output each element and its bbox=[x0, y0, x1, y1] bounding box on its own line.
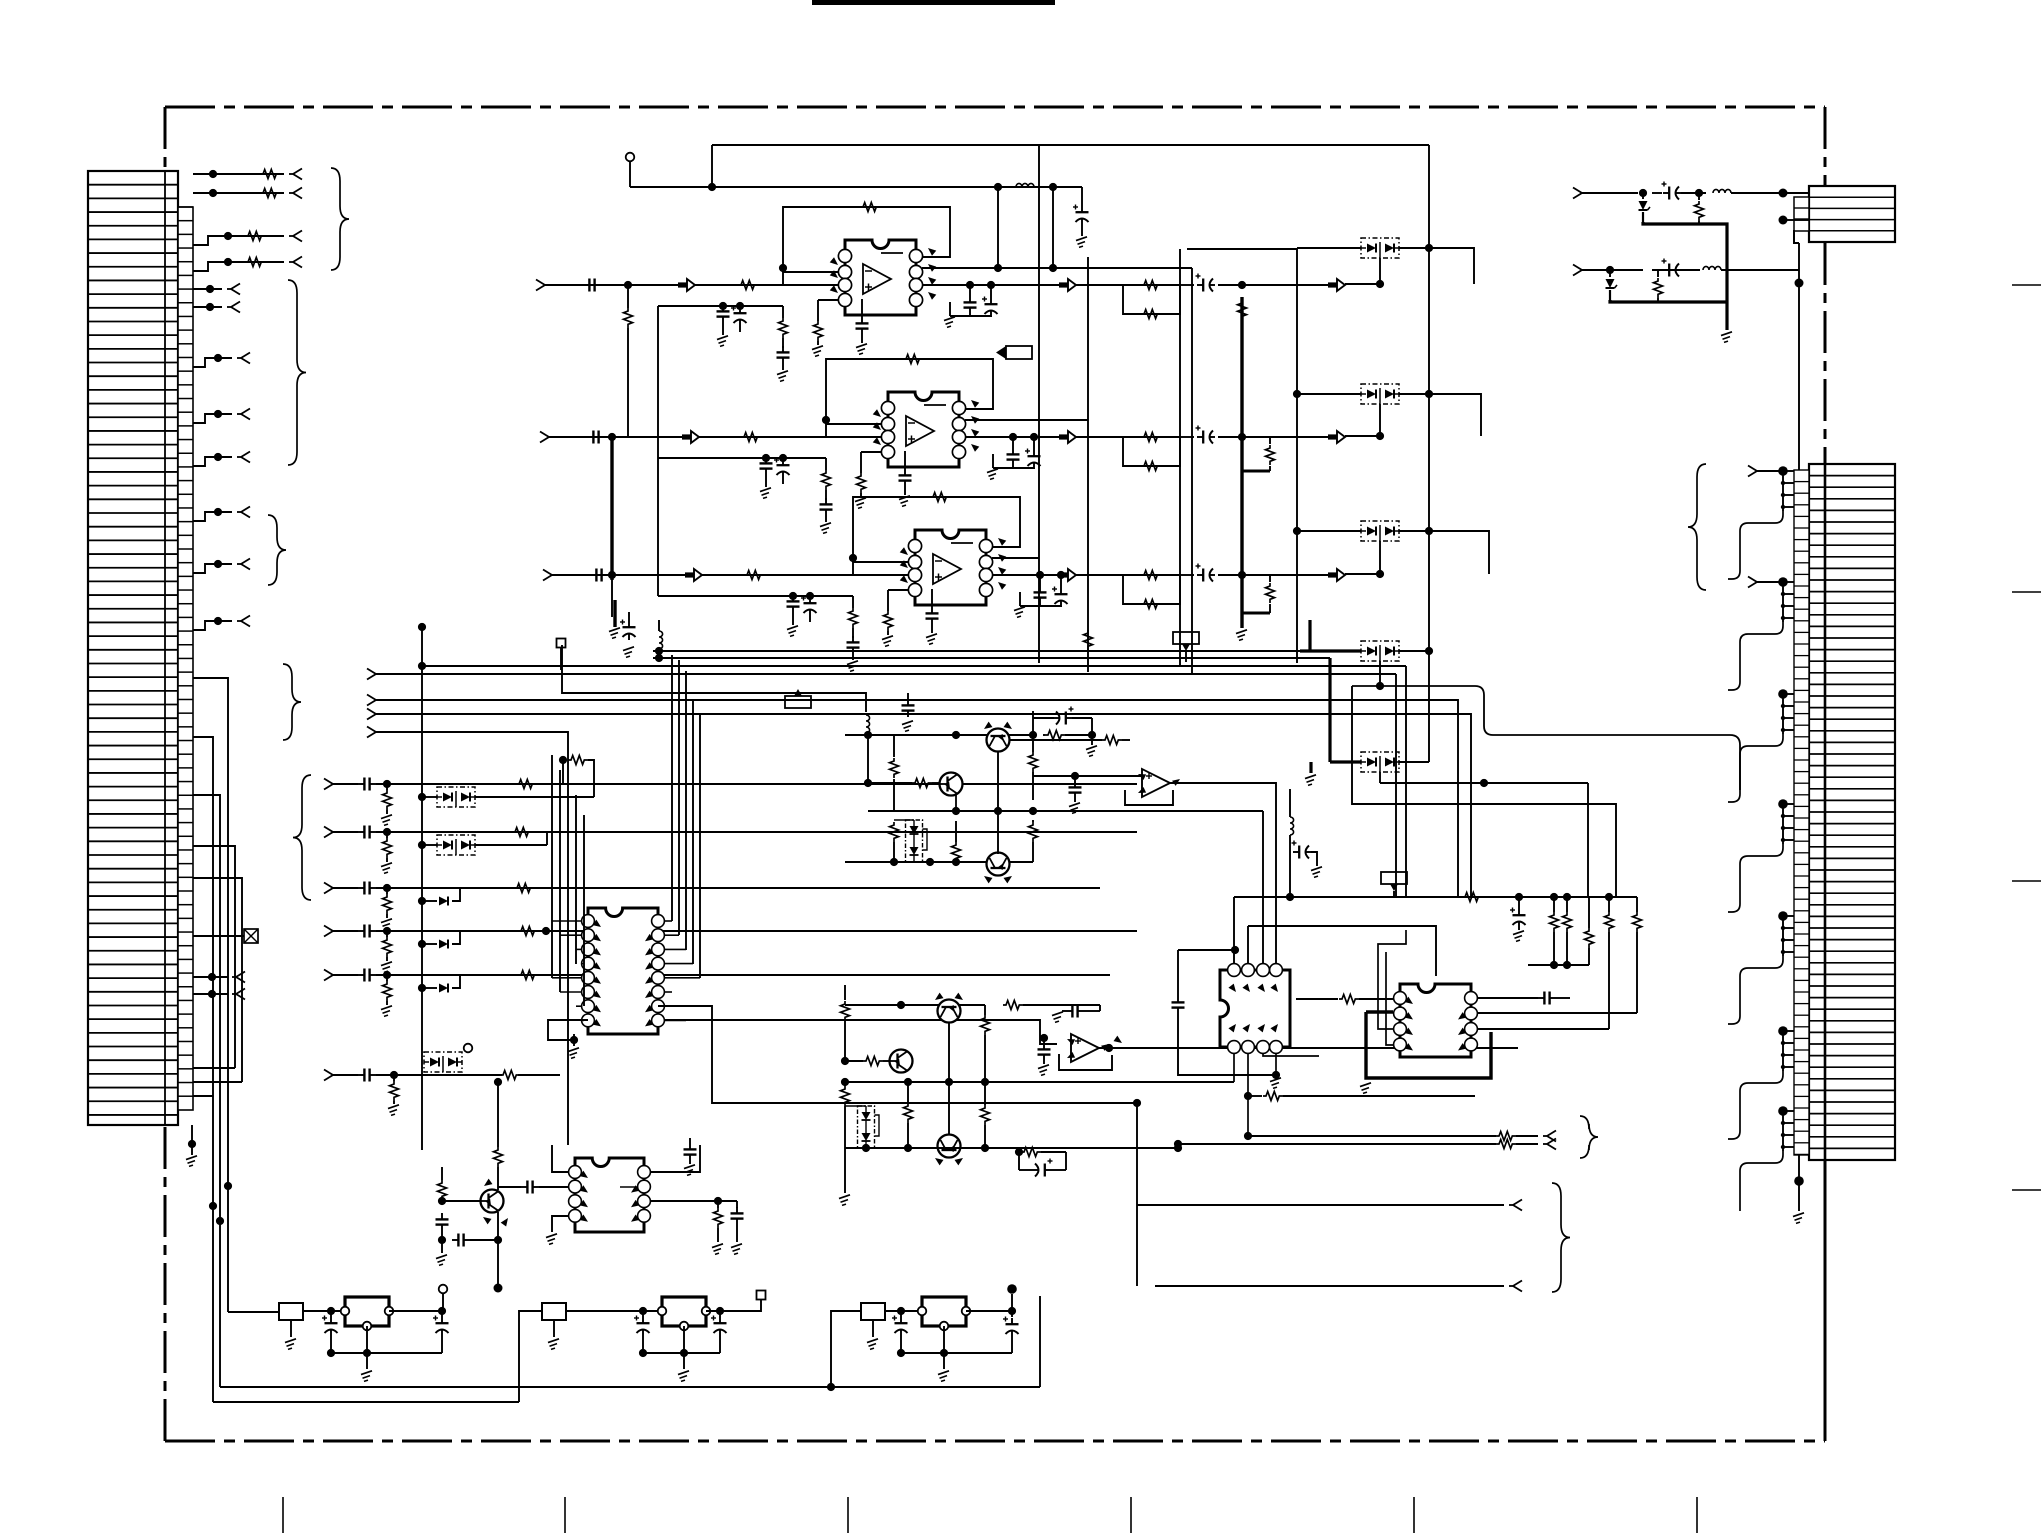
bank bottom wire bbox=[1528, 964, 1589, 966]
junction ch3 bbox=[608, 571, 616, 579]
isolator D1 (dual diode box) bbox=[1361, 238, 1399, 258]
coil right B bbox=[1703, 266, 1721, 270]
buffer amp B1 bbox=[1142, 769, 1170, 797]
wire pin row 15 elbow bbox=[193, 795, 220, 1387]
bottom margin tick 3 bbox=[847, 1497, 849, 1533]
connector CN3 wires bbox=[1783, 192, 1809, 194]
gain resistor pair ch1 bbox=[1123, 285, 1180, 314]
frame below CN2 bbox=[1824, 1160, 1827, 1441]
wire pin row 9 bbox=[193, 457, 232, 466]
cluster bus top bbox=[845, 734, 1033, 736]
bottom margin tick 1 bbox=[282, 1497, 284, 1533]
bypass electrolytic ch2 bbox=[782, 459, 784, 465]
left brace group 1 bbox=[331, 168, 349, 270]
regulator B input elco bbox=[642, 1317, 644, 1323]
wire to isolator ch2 bbox=[1242, 436, 1345, 438]
feed wire A bbox=[228, 1311, 279, 1313]
regulator B regulator body bbox=[662, 1297, 706, 1326]
wire pin row 14 elbow bbox=[193, 737, 213, 1402]
border frame top (dash-dot) bbox=[165, 106, 1825, 109]
input chevron ch3 bbox=[543, 570, 552, 576]
wire pin row 11 bbox=[193, 564, 232, 573]
regulator B wire in bbox=[566, 1310, 662, 1312]
series resistor ch2 bbox=[741, 433, 761, 442]
IC2 top right cap bbox=[689, 1143, 691, 1149]
wire pin row 13 elbow bbox=[193, 678, 228, 1312]
thick return A bbox=[1643, 222, 1727, 302]
thick return B bbox=[1610, 300, 1727, 302]
connector CN2 fan cluster 4 bbox=[1778, 799, 1788, 809]
junction ch2 bbox=[608, 433, 616, 441]
thick stub D5 ground bbox=[1309, 762, 1312, 773]
IC2 internal stub bbox=[620, 1186, 637, 1188]
coupling capacitor ch1 bbox=[583, 284, 589, 286]
fan chevron 1 bbox=[1748, 466, 1757, 472]
wire top rail B bbox=[630, 186, 1082, 188]
IC3 top verticals bbox=[1233, 897, 1235, 964]
cap to ground y705 bbox=[907, 693, 909, 701]
IC4 left wires bbox=[1378, 930, 1406, 1029]
IC1 ground bbox=[573, 1034, 575, 1046]
title underline bar bbox=[812, 0, 1055, 5]
wire pin row 5 bbox=[193, 288, 222, 290]
wire vertical to opto column bbox=[1428, 145, 1430, 762]
transistor Q2 bbox=[940, 773, 963, 796]
terminal post bbox=[626, 153, 635, 162]
connector CN2 fan cluster 6 bbox=[1778, 1026, 1788, 1036]
regulator C regulator body bbox=[922, 1297, 966, 1326]
bank res 4 bbox=[1608, 897, 1610, 912]
feedback resistor R ch3 bbox=[930, 493, 950, 502]
divider resistor a ch2 bbox=[825, 458, 827, 470]
IC4 body bbox=[1400, 984, 1471, 1057]
signal arrow ch3 bbox=[685, 572, 694, 577]
row6 wire right bbox=[440, 1074, 502, 1076]
IC3 pin stubs bbox=[1233, 1053, 1235, 1082]
zener right B bbox=[1609, 270, 1611, 277]
wire pin row 2 with resistor bbox=[193, 192, 284, 194]
dot terminal mid bbox=[418, 623, 426, 631]
IC4 thick frame bbox=[1366, 1012, 1491, 1078]
wire pin row 1 with resistor bbox=[193, 173, 284, 175]
feed wire C bbox=[220, 1386, 1040, 1388]
brace chevron low bbox=[1552, 1183, 1570, 1292]
decoupling electrolytic ch1 bbox=[990, 298, 992, 304]
chevron rows mid-right bbox=[1244, 1132, 1252, 1140]
decoupling rail ch2 bbox=[993, 467, 1034, 469]
IC2 pin1 wire bbox=[552, 1145, 568, 1172]
regulator B input filter box bbox=[542, 1303, 566, 1320]
buffer B1 wires bbox=[1033, 775, 1142, 777]
bank res 2 bbox=[1566, 897, 1568, 912]
cluster2 bus top bbox=[845, 1004, 985, 1006]
wire Q2 emitter bbox=[955, 795, 957, 811]
regulator A regulator body bbox=[345, 1297, 389, 1326]
isolator D11 bbox=[424, 1052, 462, 1072]
Q7 emitter wire bbox=[497, 1212, 499, 1288]
gain resistor pair ch2 bbox=[1123, 437, 1180, 466]
thick return stem bbox=[1725, 302, 1728, 330]
output electrolytic ch3 bbox=[1180, 574, 1194, 576]
wire channel bus thick bbox=[610, 437, 613, 580]
isolator D1 wires bbox=[1297, 247, 1361, 249]
wire pin7 out ch2 bbox=[965, 419, 1088, 421]
wire D4 tap across bbox=[1352, 686, 1740, 790]
Q7 base network bbox=[442, 1200, 481, 1202]
connector CN1 body bbox=[88, 171, 178, 1125]
IC2 right RC bbox=[717, 1201, 719, 1208]
wire pin2 ch1 bbox=[783, 271, 838, 273]
resistor bus A mid bbox=[1269, 437, 1271, 444]
resistor R cluster2 a bbox=[844, 985, 846, 1000]
wire D5 right drop bbox=[1587, 783, 1589, 897]
resistor 1096 bbox=[1244, 1092, 1252, 1100]
bus L drop right bbox=[1395, 674, 1397, 897]
long bus T2 bbox=[653, 657, 1330, 659]
decoupling capacitor ch2 bbox=[1012, 448, 1014, 454]
decoupling electrolytic ch2 bbox=[1033, 450, 1035, 456]
IC2 pin5-8 wires bbox=[651, 1145, 700, 1172]
bypass capacitor ch3 bbox=[792, 595, 794, 601]
resistor R cluster a bbox=[893, 735, 895, 757]
IC1 right wire down bbox=[664, 1020, 1057, 1044]
wire top rail A bbox=[712, 144, 1429, 146]
regulator A input filter box bbox=[279, 1303, 303, 1320]
junction ch1 bbox=[624, 281, 632, 289]
IC2 input cap bbox=[521, 1186, 527, 1188]
connector CN3 body bbox=[1809, 186, 1895, 242]
wire pin row 7 bbox=[193, 358, 232, 367]
resistor bus A low bbox=[1269, 575, 1271, 582]
thick feed D5 bbox=[1328, 658, 1331, 762]
thick stub bbox=[613, 600, 616, 627]
decoupling capacitor ch1 bbox=[969, 296, 971, 302]
wire pin row 12 bbox=[193, 621, 232, 630]
resistor R cluster2 e bbox=[981, 1105, 990, 1125]
wire pin row 19 bbox=[193, 976, 228, 978]
regulator B terminal bbox=[757, 1291, 766, 1300]
hf capacitor ch3 bbox=[931, 589, 933, 607]
wire input ch3 bbox=[552, 574, 908, 576]
wire top rail A drop bbox=[711, 145, 713, 187]
elco below channel3 bbox=[628, 621, 630, 627]
row1 loop resistor bbox=[568, 756, 588, 765]
wire cluster mid bbox=[867, 735, 869, 783]
zener D9 bbox=[418, 940, 426, 948]
regulator A output elco bbox=[441, 1317, 443, 1323]
wire x1297 top bbox=[1187, 248, 1297, 250]
resistor channel bus bbox=[627, 285, 629, 308]
electrolytic right A bbox=[1663, 192, 1669, 194]
regulator A wire out bbox=[389, 1310, 442, 1312]
chevron bus 2 bbox=[367, 695, 376, 701]
row5 wire right bbox=[422, 974, 1110, 976]
vertical line x1297 bbox=[1296, 249, 1298, 663]
resistor R cluster d bbox=[1029, 752, 1038, 772]
connector CN2 fan cluster 1 bbox=[1778, 466, 1788, 476]
wire iso row1 to right bbox=[1429, 248, 1474, 284]
op-amp U3 bbox=[915, 530, 986, 605]
dual diode DD1 bbox=[906, 820, 923, 862]
bypass capacitor ch1 bbox=[722, 305, 724, 311]
square terminal mid bbox=[557, 639, 566, 648]
transistor Q7 bbox=[481, 1190, 504, 1213]
bus y897 bbox=[1234, 896, 1637, 898]
bottom margin tick 2 bbox=[564, 1497, 566, 1533]
divider resistor b ch2 bbox=[860, 452, 862, 473]
regulator C input elco bbox=[900, 1317, 902, 1323]
brace chevron pair bbox=[1580, 1116, 1598, 1158]
resistor bank feed bbox=[1462, 893, 1482, 902]
divider resistor a ch1 bbox=[782, 306, 784, 318]
wire pin row 16 elbow bbox=[193, 846, 235, 1068]
connector CN2 frame overlap bbox=[1824, 464, 1827, 1160]
regulator A input elco bbox=[330, 1317, 332, 1323]
loop rect around D5 bbox=[1352, 686, 1616, 897]
feed wire B bbox=[213, 1401, 519, 1403]
tp symbol right bbox=[1381, 872, 1407, 884]
output electrolytic ch1 bbox=[1180, 284, 1194, 286]
wire pin row 4 with resistor bbox=[193, 262, 284, 271]
cluster2 mid bus bbox=[845, 1081, 1234, 1083]
long bus U bbox=[422, 665, 1406, 667]
long bus L bbox=[376, 673, 1396, 675]
isolator D5 wires bbox=[1330, 760, 1361, 763]
ground below connector CN1 bbox=[191, 1125, 193, 1155]
output arrow ch1 bbox=[1059, 282, 1068, 287]
divider resistor b ch1 bbox=[817, 300, 819, 321]
rail B electrolytic bbox=[1081, 187, 1083, 206]
left brace group 3 bbox=[268, 515, 286, 585]
supply wire ch2 bbox=[658, 457, 826, 459]
IC4 right wires bbox=[1478, 997, 1538, 999]
capacitor cluster2 bbox=[1043, 1043, 1045, 1049]
connector CN1 inner column line bbox=[164, 171, 166, 1125]
wire loop-rect left vertical bbox=[1038, 144, 1040, 663]
IC1 right verticals bbox=[671, 655, 673, 921]
bus U drop right bbox=[1405, 666, 1407, 897]
bank res 3 bbox=[1588, 897, 1590, 928]
regulator C terminal bbox=[1007, 1284, 1017, 1294]
signal arrow ch1 bbox=[678, 282, 687, 287]
cap pair cluster2 bbox=[1066, 1010, 1072, 1012]
IC2 body bbox=[575, 1158, 644, 1232]
bypass electrolytic ch3 bbox=[809, 597, 811, 603]
chevron row 2 mid-right bbox=[1178, 1143, 1496, 1145]
input chevron ch1 bbox=[536, 280, 545, 286]
transistor Q1 bbox=[987, 729, 1010, 752]
wire output ch1 bbox=[923, 284, 1123, 286]
wire IC3-IC4 bbox=[1296, 998, 1338, 1000]
decoupling rail ch3 bbox=[1020, 605, 1061, 607]
row4 input bbox=[324, 926, 333, 932]
isolator arrow ch2 bbox=[1328, 434, 1337, 439]
IC1 pin8 wire down bbox=[548, 1020, 588, 1040]
wire Q1-Q3 vertical bbox=[997, 751, 999, 854]
electrolytic right B bbox=[1663, 269, 1669, 271]
row5 input bbox=[324, 970, 333, 976]
feedback loop ch2 bbox=[826, 359, 993, 437]
signal arrow ch2 bbox=[682, 434, 691, 439]
wire stair row b bbox=[193, 1081, 242, 1083]
wire pin row 6 bbox=[193, 306, 222, 308]
resistor R cluster e bbox=[1029, 822, 1038, 842]
ground bus A bbox=[1236, 630, 1247, 634]
resistor on bus A top bbox=[1238, 300, 1247, 320]
connector CN3 stub cells bbox=[1794, 197, 1809, 231]
bank elco bbox=[1518, 897, 1520, 909]
resistor R cluster b bbox=[890, 822, 899, 842]
regulator C wire in bbox=[885, 1310, 922, 1312]
wire right B bbox=[1582, 269, 1643, 271]
elco cluster2 bbox=[1045, 1169, 1051, 1171]
connector CN2 fan cluster 7 bbox=[1778, 1106, 1788, 1116]
transistor Q3 bbox=[987, 853, 1010, 876]
chevron bus 4 bbox=[367, 727, 376, 733]
wire D5 tap across bbox=[1380, 782, 1588, 784]
bottom margin tick 4 bbox=[1130, 1497, 1132, 1533]
IC1 left verticals bbox=[551, 755, 553, 978]
supply wire ch3 bbox=[658, 595, 853, 597]
wire right B junction bbox=[1770, 269, 1799, 271]
vertical line x1192 bbox=[1191, 268, 1193, 674]
op-amp U2 bbox=[888, 392, 959, 467]
bypass electrolytic ch1 bbox=[739, 307, 741, 313]
wire y692 elbow bbox=[562, 645, 866, 712]
ground cluster2 bbox=[844, 1148, 846, 1193]
output junction ch1 bbox=[1238, 281, 1246, 289]
regulator A terminal bbox=[439, 1285, 448, 1294]
wire output ch2 bbox=[966, 436, 1123, 438]
wire y926 bbox=[1248, 926, 1436, 976]
resistor R cluster2 b bbox=[841, 1086, 850, 1106]
resistor right A bbox=[1698, 193, 1700, 200]
resistor R cluster c bbox=[952, 842, 961, 862]
coil right A bbox=[1713, 189, 1731, 193]
crystal box symbol bbox=[244, 929, 258, 943]
decoupling electrolytic ch3 bbox=[1060, 588, 1062, 594]
row2 wire right bbox=[422, 831, 1137, 833]
wire stair row c bbox=[193, 1095, 213, 1097]
row3 input bbox=[324, 883, 333, 889]
wire right A bbox=[1582, 192, 1638, 194]
bank res 5 bbox=[1636, 897, 1638, 912]
wire Q4-Q6 vertical bbox=[948, 1022, 950, 1136]
bottom margin tick 5 bbox=[1413, 1497, 1415, 1533]
rail B inductor bbox=[1016, 183, 1034, 187]
border frame left (dash-dot) bbox=[164, 107, 167, 1441]
rail B vertical b bbox=[1052, 187, 1054, 268]
input chevron right B bbox=[1573, 265, 1582, 271]
IC3 left cap bbox=[1177, 950, 1179, 996]
wire pin row 18 to crystal box bbox=[193, 935, 244, 937]
vertical bus x422 bbox=[421, 666, 423, 1150]
feedback resistor R ch1 bbox=[860, 203, 880, 212]
divider resistor b ch3 bbox=[887, 590, 889, 611]
regulator C wire out bbox=[966, 1310, 1012, 1312]
long bus T1 bbox=[653, 650, 1300, 652]
op-amp U1 bbox=[845, 240, 916, 315]
IC1 right pin wires bbox=[665, 920, 672, 922]
right margin tick 2 bbox=[2012, 591, 2041, 593]
resistor cluster2 f bbox=[1003, 1001, 1023, 1010]
regulator B bottom rail bbox=[643, 1352, 720, 1354]
tag arrow box bbox=[1006, 346, 1032, 359]
wire input ch2 bbox=[549, 436, 881, 438]
dual diode DD2 bbox=[858, 1106, 875, 1148]
IC1 wire right low bbox=[658, 1006, 1137, 1103]
left brace group 2 bbox=[288, 280, 306, 465]
isolator D4 (dual diode box) bbox=[1361, 641, 1399, 661]
row1 input bbox=[324, 779, 333, 785]
left brace bus group bbox=[283, 664, 301, 740]
right margin tick 4 bbox=[2012, 1189, 2041, 1191]
connector CN3 pin rows bbox=[1809, 196, 1895, 198]
connector CN2 fan cluster 3 bbox=[1778, 689, 1788, 699]
fan chevron 2 bbox=[1748, 577, 1757, 583]
IC1 left pin wires bbox=[552, 920, 581, 922]
regulator C input filter box bbox=[861, 1303, 885, 1320]
connector CN1 stub pin column bbox=[178, 207, 193, 1110]
wire CN3 drop bbox=[1794, 230, 1799, 243]
zener D8 bbox=[418, 897, 426, 905]
right margin tick 1 bbox=[2012, 284, 2041, 286]
isolator D5 (dual diode box) bbox=[1361, 752, 1399, 772]
chevron bus 3 bbox=[367, 709, 376, 715]
isolator D6 bbox=[437, 787, 475, 807]
chevron bus 1 bbox=[367, 669, 376, 675]
wire pin row 10 bbox=[193, 512, 232, 521]
wire iso row3 to right bbox=[1429, 531, 1489, 574]
row4 wire right bbox=[422, 930, 1137, 932]
isolator D2 (dual diode box) bbox=[1361, 384, 1399, 404]
gain resistor pair ch3 bbox=[1123, 575, 1180, 604]
connector CN2 pin rows bbox=[1809, 475, 1895, 477]
zener right A bbox=[1642, 193, 1644, 199]
rail B vertical a bbox=[997, 187, 999, 268]
row1 wire right bbox=[422, 783, 1137, 785]
IC3 pins bbox=[1228, 964, 1241, 977]
decoupling rail ch1 bbox=[950, 315, 991, 317]
tp symbol mid bbox=[1173, 632, 1199, 644]
regulator C bottom rail bbox=[901, 1352, 1012, 1354]
isolator D4 wires bbox=[1300, 649, 1361, 652]
isolator D2 wires bbox=[1297, 393, 1361, 395]
wire loop-rect inner vertical bbox=[1087, 257, 1089, 672]
resistor R cluster2 c bbox=[907, 1082, 909, 1103]
output junction ch2 bbox=[1238, 433, 1246, 441]
hf capacitor ch1 bbox=[861, 299, 863, 317]
IC3 body bbox=[1220, 970, 1290, 1047]
vertical x1137 bbox=[1136, 1103, 1138, 1286]
resistor to Q1 base r bbox=[1102, 736, 1122, 745]
vertical line x1180 bbox=[1179, 249, 1181, 666]
output electrolytic ch2 bbox=[1180, 436, 1194, 438]
wire pin row 3 with resistor bbox=[193, 236, 284, 245]
supply wire ch1 bbox=[658, 305, 783, 307]
regulator C center pin bbox=[943, 1326, 945, 1353]
chevron low 2 bbox=[1155, 1285, 1504, 1287]
regulator B wire out bbox=[706, 1310, 720, 1312]
series resistor ch3 bbox=[744, 571, 764, 580]
wire stair row a bbox=[193, 1067, 235, 1069]
decoupling capacitor ch3 bbox=[1039, 586, 1041, 592]
output junction ch3 bbox=[1238, 571, 1246, 579]
connector CN2 bottom stem bbox=[1798, 1181, 1800, 1211]
wire pin2 ch3 bbox=[853, 561, 908, 563]
isolator arrow ch3 bbox=[1328, 572, 1337, 577]
output arrow ch3 bbox=[1059, 572, 1068, 577]
